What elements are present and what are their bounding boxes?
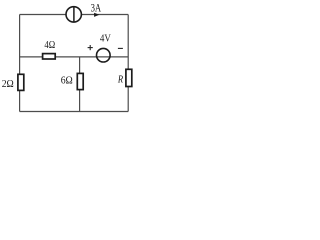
svg-text:4Ω: 4Ω	[44, 40, 55, 51]
svg-text:6Ω: 6Ω	[61, 76, 73, 87]
svg-text:4V: 4V	[100, 33, 111, 45]
svg-text:R: R	[117, 74, 123, 85]
svg-text:3A: 3A	[91, 3, 102, 15]
svg-text:2Ω: 2Ω	[2, 79, 14, 90]
